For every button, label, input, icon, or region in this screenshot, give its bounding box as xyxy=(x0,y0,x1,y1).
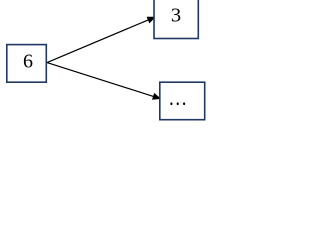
svg-text:6: 6 xyxy=(23,51,33,73)
svg-text:3: 3 xyxy=(171,4,181,26)
